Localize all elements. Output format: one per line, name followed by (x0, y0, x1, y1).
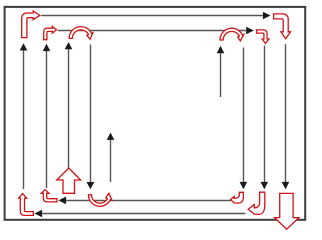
arrowhead right on line T1 (263, 12, 271, 19)
red bent arrow BR1 (small curl, down then left) (230, 192, 243, 203)
red bent arrow TR1 (big, right then down) (274, 14, 291, 39)
wire: bottom horizontal line B2 y=213.5 (42, 213, 245, 215)
red u-turn arc arrow bottom (under the line, head up at right) (88, 193, 112, 206)
wire: bottom horizontal line B1 y=200.5 (66, 200, 230, 202)
wire: vertical line I x=285.5 (285, 44, 287, 182)
wire: vertical line H x=264.5 (264, 46, 266, 183)
red bent arrow BR2 (J shape, down then left) (248, 192, 265, 214)
arrowhead down on line G (240, 182, 248, 189)
arrowhead right on line T2 (246, 27, 254, 34)
red bent arrow TL2 (small, up then right) (44, 26, 57, 39)
wire: vertical line E x=110.5 (110, 140, 112, 183)
arrowhead left on line B1 (58, 197, 66, 205)
wire: top horizontal line T2 y=30.5 (58, 30, 247, 32)
red bent arrow TL1 (up then right) (22, 11, 40, 38)
wire: vertical line G x=243.5 (243, 48, 245, 183)
red block arrow down (bottom-right exit) (275, 193, 299, 229)
arrowhead left on line B2 (34, 210, 42, 218)
red bent arrow BL2 (small, leftward then up) (41, 190, 57, 202)
wire: top horizontal line T1 y=15.5 (41, 15, 263, 17)
wire: vertical line C x=68.5 (68, 49, 70, 168)
wire: vertical line F x=220.5 (220, 53, 222, 97)
arrowhead up on line A (20, 43, 28, 50)
red block arrow up (bottom-left start) (57, 168, 81, 193)
wire: vertical line A x=23.5 (23, 50, 25, 189)
red bent arrow BL1 (leftward then up) (19, 194, 34, 216)
arrowhead down on line H (261, 182, 269, 189)
arrowhead up on line B (43, 44, 51, 51)
wire: vertical line D x=90.5 (90, 45, 92, 183)
arrowhead up on line F (217, 46, 225, 53)
red semicircular arc arrow top-right (clockwise over the top) (220, 28, 244, 41)
arrowhead up on line C (65, 42, 73, 49)
arrowhead down on line D (87, 182, 95, 189)
red semicircular arc arrow top-left (clockwise over the top) (69, 27, 93, 40)
arrowhead up on line E (107, 133, 115, 140)
red bent arrow TR2 (small, right then down) (257, 30, 269, 44)
wire: vertical line B x=46.5 (46, 51, 48, 188)
arrowhead down on line I (282, 182, 290, 189)
